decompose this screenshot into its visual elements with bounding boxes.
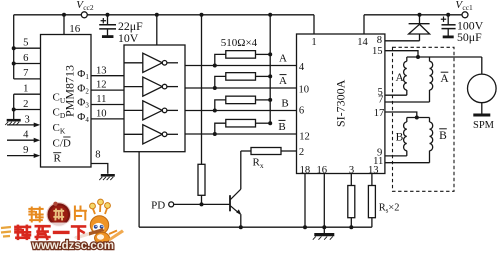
- svg-text:A: A: [440, 73, 449, 85]
- svg-text:6: 6: [23, 53, 28, 64]
- svg-text:B: B: [278, 121, 285, 133]
- svg-text:A: A: [279, 75, 287, 87]
- svg-text:8: 8: [377, 35, 382, 46]
- svg-text:50μF: 50μF: [457, 30, 482, 44]
- svg-text:A: A: [279, 53, 287, 65]
- svg-text:C/D: C/D: [53, 137, 71, 149]
- svg-text:PD: PD: [151, 199, 165, 211]
- svg-text:9: 9: [23, 145, 28, 156]
- svg-text:1: 1: [23, 84, 28, 95]
- svg-text:PMM8713: PMM8713: [63, 65, 77, 117]
- svg-text:8: 8: [95, 150, 100, 161]
- svg-text:15: 15: [372, 46, 383, 57]
- svg-text:5: 5: [23, 38, 28, 49]
- svg-text:B: B: [439, 130, 447, 142]
- svg-text:12: 12: [299, 132, 310, 143]
- svg-text:SI-7300A: SI-7300A: [334, 79, 348, 127]
- svg-text:B: B: [281, 97, 288, 109]
- svg-text:13: 13: [96, 65, 107, 76]
- svg-text:16: 16: [317, 165, 328, 176]
- svg-text:12: 12: [96, 80, 107, 91]
- svg-text:cc1: cc1: [462, 3, 473, 12]
- svg-text:A: A: [395, 72, 404, 84]
- svg-text:SPM: SPM: [473, 120, 495, 131]
- svg-text:7: 7: [378, 94, 383, 105]
- svg-text:cc2: cc2: [83, 3, 94, 12]
- svg-text:2: 2: [299, 147, 304, 158]
- svg-text:10: 10: [299, 84, 310, 95]
- svg-text:B: B: [396, 132, 404, 144]
- svg-text:2: 2: [23, 99, 28, 110]
- svg-text:10V: 10V: [118, 31, 139, 45]
- svg-text:3: 3: [25, 114, 30, 125]
- svg-text:16: 16: [69, 23, 81, 35]
- svg-text:11: 11: [373, 156, 383, 167]
- svg-text:7: 7: [23, 68, 28, 79]
- svg-text:17: 17: [374, 108, 385, 119]
- svg-text:510Ω×4: 510Ω×4: [221, 37, 258, 49]
- svg-text:www.dzsc.com: www.dzsc.com: [31, 240, 114, 251]
- svg-text:4: 4: [23, 130, 29, 141]
- svg-text:Rs×2: Rs×2: [379, 202, 400, 214]
- svg-text:1: 1: [311, 37, 316, 48]
- svg-text:11: 11: [96, 94, 106, 105]
- svg-text:4: 4: [299, 62, 305, 73]
- svg-text:10: 10: [96, 109, 107, 120]
- svg-text:R: R: [54, 153, 62, 165]
- svg-text:6: 6: [299, 106, 304, 117]
- svg-text:14: 14: [357, 37, 368, 48]
